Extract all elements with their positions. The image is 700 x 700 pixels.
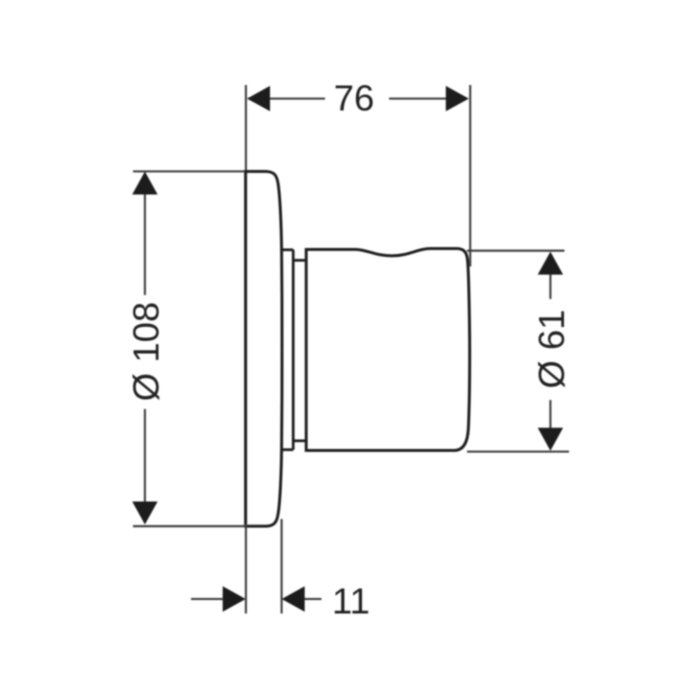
dimension 11: left arrowhead (pointing right) — [223, 586, 246, 611]
dimension 76: right extension line — [469, 85, 471, 267]
handle (side profile with grip dip) — [306, 249, 470, 451]
dimension Ø108: top arrowhead — [132, 172, 157, 195]
dimension Ø61: bottom extension line — [467, 451, 569, 453]
dimension 76: right arrowhead — [446, 86, 469, 111]
dimension 76: dimension line left segment — [248, 98, 325, 100]
dimension Ø108: dimension line lower segment — [144, 409, 146, 503]
dimension Ø108: top extension line — [133, 170, 245, 172]
dimension 76: dimension line right segment — [389, 98, 468, 100]
dimension Ø108: bottom arrowhead — [132, 502, 157, 525]
flange ring right edge — [292, 250, 295, 450]
dimension Ø108: dimension line upper segment — [144, 193, 146, 295]
dimension Ø61: dimension line upper segment — [549, 274, 551, 300]
sleeve bottom edge — [293, 439, 306, 442]
svg-text:Ø 61: Ø 61 — [531, 309, 572, 388]
dimension 11: right tail line — [303, 598, 322, 600]
dimension 11: left extension line — [245, 524, 247, 614]
svg-text:Ø 108: Ø 108 — [126, 302, 167, 401]
svg-text:11: 11 — [332, 581, 370, 622]
flange ring bottom edge — [281, 448, 293, 451]
dimension Ø61: dimension line lower segment — [549, 400, 551, 429]
dimension 11: right arrowhead (pointing left) — [282, 586, 305, 611]
dimension 11: left tail line — [191, 598, 224, 600]
dimension Ø108: bottom extension line — [133, 525, 245, 527]
dimension 11: right extension line — [281, 519, 283, 614]
dimension Ø61: top extension line — [467, 250, 565, 252]
dimension 76: left extension line — [245, 85, 247, 170]
sleeve top edge — [293, 259, 306, 262]
dimension Ø61: bottom arrowhead — [538, 428, 563, 451]
escutcheon plate (side profile) — [246, 171, 282, 526]
svg-text:76: 76 — [334, 78, 375, 119]
dimension 76: left arrowhead — [247, 86, 270, 111]
dimension Ø61: top arrowhead — [538, 252, 563, 275]
flange ring top edge — [281, 248, 293, 251]
